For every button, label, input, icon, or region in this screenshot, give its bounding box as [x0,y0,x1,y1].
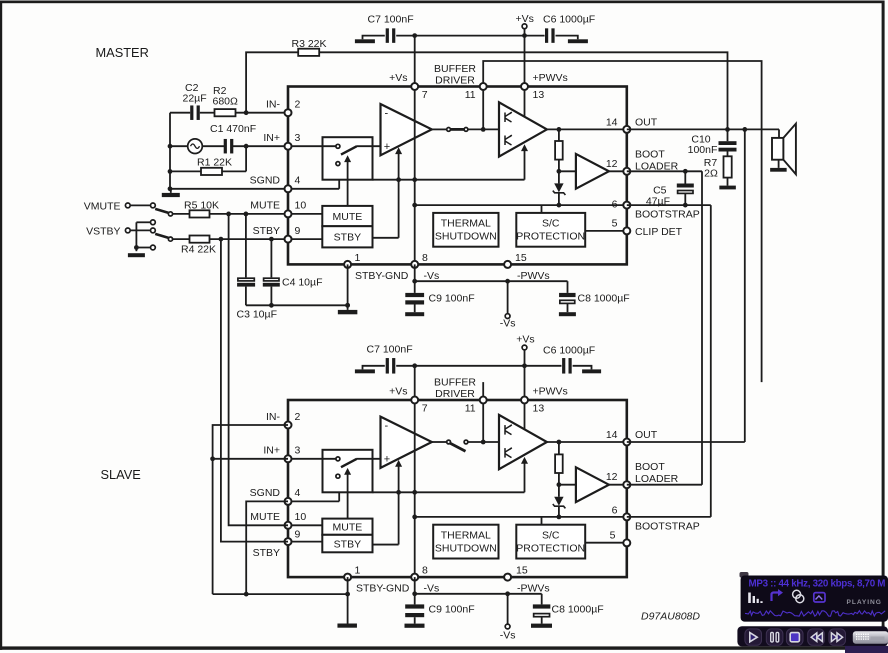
svg-text:5: 5 [610,530,616,542]
svg-text:OUT: OUT [635,116,658,128]
svg-text:R4 22K: R4 22K [181,244,216,256]
svg-text:THERMAL: THERMAL [441,529,491,541]
svg-text:-Vs: -Vs [424,583,440,595]
svg-text:C9 100nF: C9 100nF [429,293,475,305]
svg-text:SLAVE: SLAVE [101,467,141,482]
svg-text:7: 7 [422,403,428,415]
svg-text:SHUTDOWN: SHUTDOWN [435,231,497,243]
svg-text:8: 8 [422,565,428,577]
svg-text:1: 1 [355,252,361,264]
svg-text:DRIVER: DRIVER [435,75,475,87]
svg-text:12: 12 [606,158,618,170]
svg-text:MUTE: MUTE [333,522,363,534]
svg-text:C6 1000µF: C6 1000µF [543,14,595,26]
svg-text:STBY-GND: STBY-GND [355,270,409,282]
svg-text:MUTE: MUTE [250,200,280,212]
svg-text:STBY: STBY [334,538,361,550]
svg-text:STBY-GND: STBY-GND [356,583,410,595]
svg-text:MP3 :: 44 kHz, 320 kbps, 8,70: MP3 :: 44 kHz, 320 kbps, 8,70 M [749,578,886,589]
svg-text:680Ω: 680Ω [213,96,239,108]
svg-text:PLAYING: PLAYING [847,599,882,606]
svg-text:SGND: SGND [250,487,281,499]
svg-text:+PWVs: +PWVs [533,72,568,84]
svg-text:MASTER: MASTER [96,45,149,60]
svg-text:R3 22K: R3 22K [292,38,327,50]
svg-text:BOOT: BOOT [635,461,665,473]
svg-text:BUFFER: BUFFER [434,63,476,75]
svg-text:PROTECTION: PROTECTION [516,231,585,243]
svg-text:22µF: 22µF [183,93,207,105]
svg-text:STBY: STBY [334,232,361,244]
svg-text:C8 1000µF: C8 1000µF [578,293,630,305]
svg-text:+Vs: +Vs [389,72,407,84]
svg-text:+: + [384,454,390,466]
svg-text:C7 100nF: C7 100nF [367,344,413,356]
svg-text:DRIVER: DRIVER [435,388,475,400]
svg-text:3: 3 [295,445,301,457]
svg-text:C3 10µF: C3 10µF [237,309,277,321]
svg-text:-PWVs: -PWVs [517,583,550,595]
svg-text:MUTE: MUTE [333,211,363,223]
svg-text:THERMAL: THERMAL [441,218,491,230]
svg-text:STBY: STBY [253,547,280,559]
svg-text:-: - [385,420,389,432]
svg-text:OUT: OUT [635,429,658,441]
svg-text:10: 10 [295,200,307,212]
svg-text:BOOTSTRAP: BOOTSTRAP [635,521,700,533]
svg-text:R5 10K: R5 10K [184,200,219,212]
svg-text:IN+: IN+ [263,132,280,144]
svg-text:12: 12 [606,471,618,483]
svg-text:PROTECTION: PROTECTION [516,542,585,554]
svg-text:-PWVs: -PWVs [517,270,550,282]
svg-text:8: 8 [422,252,428,264]
svg-text:C4 10µF: C4 10µF [282,277,322,289]
svg-text:LOADER: LOADER [635,473,679,485]
svg-text:1: 1 [355,565,361,577]
svg-text:+Vs: +Vs [389,386,407,398]
svg-text:C6 1000µF: C6 1000µF [543,345,595,357]
svg-text:100nF: 100nF [688,144,718,156]
svg-text:2: 2 [295,411,301,423]
svg-text:S/C: S/C [542,218,560,230]
svg-text:5: 5 [612,218,618,230]
svg-text:+PWVs: +PWVs [533,386,568,398]
svg-text:VMUTE: VMUTE [84,201,121,213]
svg-text:10: 10 [295,511,307,523]
svg-text:11: 11 [465,89,476,101]
svg-text:C8 1000µF: C8 1000µF [552,604,604,616]
svg-text:11: 11 [465,403,476,415]
svg-text:9: 9 [295,225,301,237]
svg-text:6: 6 [612,199,618,211]
svg-text:SGND: SGND [250,175,281,187]
svg-text:IN-: IN- [266,411,281,423]
svg-text:4: 4 [295,175,301,187]
svg-text:-Vs: -Vs [424,270,440,282]
svg-text:CLIP DET: CLIP DET [635,226,683,238]
svg-text:R1 22K: R1 22K [197,157,232,169]
svg-text:BOOTSTRAP: BOOTSTRAP [635,209,700,221]
svg-text:14: 14 [606,429,618,441]
svg-text:2Ω: 2Ω [704,167,718,179]
svg-text:IN-: IN- [266,99,281,111]
svg-text:9: 9 [295,528,301,540]
svg-text:13: 13 [533,403,545,415]
svg-text:13: 13 [533,89,545,101]
svg-text:C9 100nF: C9 100nF [429,604,475,616]
svg-text:7: 7 [422,89,428,101]
svg-text:6: 6 [612,505,618,517]
svg-text:STBY: STBY [253,225,280,237]
svg-text:S/C: S/C [542,529,560,541]
svg-text:-Vs: -Vs [500,318,516,330]
svg-text:+Vs: +Vs [516,13,534,25]
svg-text:-Vs: -Vs [500,630,516,642]
svg-text:-: - [385,108,389,120]
svg-text:15: 15 [515,252,527,264]
svg-text:4: 4 [295,487,301,499]
svg-text:14: 14 [606,116,618,128]
svg-text:+: + [384,141,390,153]
svg-text:3: 3 [295,132,301,144]
svg-text:+Vs: +Vs [516,334,534,346]
svg-text:C1 470nF: C1 470nF [210,123,256,135]
svg-text:IN+: IN+ [263,445,280,457]
svg-text:MUTE: MUTE [250,511,280,523]
svg-text:VSTBY: VSTBY [86,226,120,238]
svg-text:BUFFER: BUFFER [434,377,476,389]
svg-text:SHUTDOWN: SHUTDOWN [435,542,497,554]
svg-text:2: 2 [295,99,301,111]
svg-text:15: 15 [516,565,528,577]
svg-text:C7 100nF: C7 100nF [368,14,414,26]
svg-text:D97AU808D: D97AU808D [641,611,700,623]
svg-text:BOOT: BOOT [635,149,665,161]
